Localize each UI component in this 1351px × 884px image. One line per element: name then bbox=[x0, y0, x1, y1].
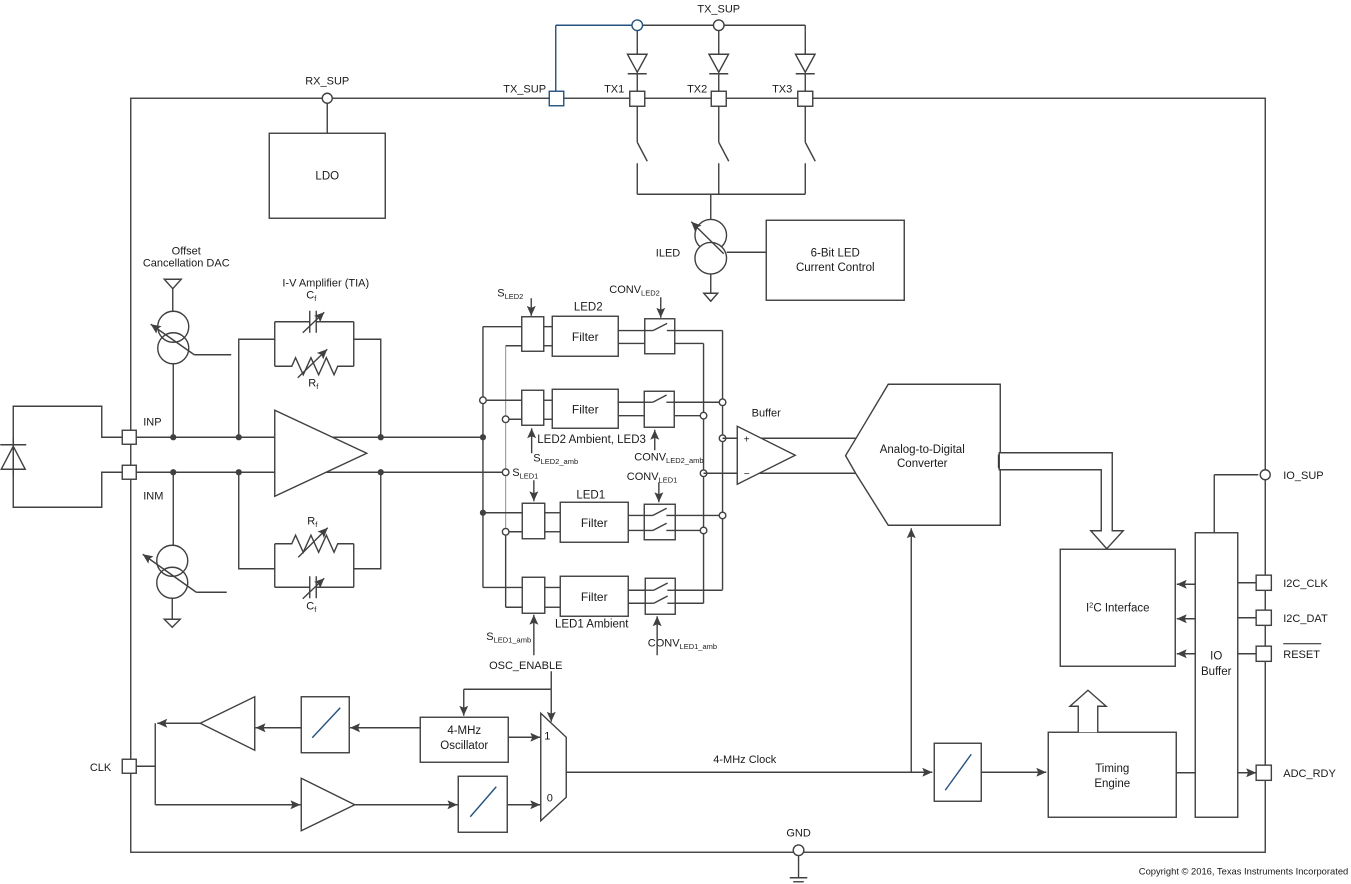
svg-text:−: − bbox=[744, 469, 750, 480]
svg-text:Buffer: Buffer bbox=[752, 407, 781, 419]
svg-text:TX_SUP: TX_SUP bbox=[697, 3, 740, 15]
svg-text:LED2: LED2 bbox=[574, 301, 603, 313]
svg-text:TX2: TX2 bbox=[687, 83, 707, 95]
svg-text:Offset: Offset bbox=[172, 245, 201, 257]
svg-text:Copyright © 2016, Texas Instru: Copyright © 2016, Texas Instruments Inco… bbox=[1139, 865, 1348, 876]
svg-text:IO: IO bbox=[1210, 650, 1222, 662]
svg-text:Current Control: Current Control bbox=[796, 262, 875, 274]
svg-text:4-MHz Clock: 4-MHz Clock bbox=[713, 754, 776, 766]
svg-text:ADC_RDY: ADC_RDY bbox=[1283, 768, 1336, 780]
svg-text:TX3: TX3 bbox=[772, 83, 792, 95]
svg-text:Cancellation DAC: Cancellation DAC bbox=[143, 257, 230, 269]
svg-text:I2C_CLK: I2C_CLK bbox=[1283, 578, 1328, 590]
svg-text:OSC_ENABLE: OSC_ENABLE bbox=[489, 660, 562, 672]
svg-text:Engine: Engine bbox=[1094, 778, 1130, 790]
svg-text:GND: GND bbox=[786, 827, 811, 839]
svg-text:4-MHz: 4-MHz bbox=[447, 725, 481, 737]
svg-text:0: 0 bbox=[547, 792, 553, 804]
svg-text:ILED: ILED bbox=[656, 247, 681, 259]
svg-text:INM: INM bbox=[143, 490, 163, 502]
svg-text:Converter: Converter bbox=[897, 458, 948, 470]
svg-text:RX_SUP: RX_SUP bbox=[305, 75, 349, 87]
svg-text:Timing: Timing bbox=[1095, 763, 1129, 775]
svg-text:LED2 Ambient, LED3: LED2 Ambient, LED3 bbox=[537, 434, 646, 446]
svg-text:Filter: Filter bbox=[581, 590, 608, 604]
svg-text:Analog-to-Digital: Analog-to-Digital bbox=[880, 444, 965, 456]
svg-text:I2C Interface: I2C Interface bbox=[1086, 600, 1150, 614]
svg-text:LDO: LDO bbox=[315, 170, 339, 182]
svg-text:1: 1 bbox=[544, 730, 550, 742]
svg-text:CLK: CLK bbox=[90, 762, 112, 774]
svg-text:Filter: Filter bbox=[581, 516, 608, 530]
svg-text:LED1: LED1 bbox=[576, 489, 605, 501]
svg-text:LED1 Ambient: LED1 Ambient bbox=[555, 618, 629, 630]
svg-text:TX1: TX1 bbox=[604, 83, 624, 95]
svg-text:Filter: Filter bbox=[572, 330, 599, 344]
svg-text:RESET: RESET bbox=[1283, 649, 1320, 661]
svg-text:Buffer: Buffer bbox=[1201, 666, 1232, 678]
svg-text:Oscillator: Oscillator bbox=[440, 740, 488, 752]
svg-text:I-V Amplifier (TIA): I-V Amplifier (TIA) bbox=[282, 277, 369, 289]
svg-text:6-Bit LED: 6-Bit LED bbox=[811, 247, 860, 259]
svg-text:I2C_DAT: I2C_DAT bbox=[1283, 613, 1328, 625]
svg-text:IO_SUP: IO_SUP bbox=[1283, 470, 1323, 482]
svg-text:TX_SUP: TX_SUP bbox=[503, 83, 546, 95]
svg-text:Filter: Filter bbox=[572, 402, 599, 416]
svg-text:+: + bbox=[744, 434, 750, 445]
svg-text:INP: INP bbox=[143, 416, 161, 428]
